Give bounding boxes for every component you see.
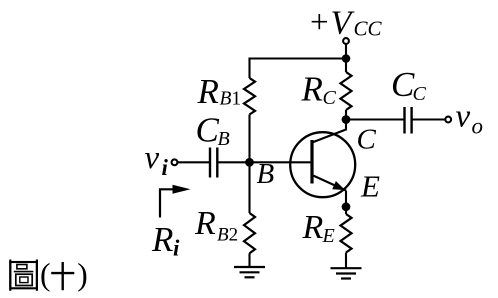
glyph tu inner top box [17,265,27,269]
wire [250,57,347,59]
svg-text:(: ( [40,257,51,292]
svg-text:B1: B1 [220,89,242,110]
wire [345,110,347,131]
svg-text:R: R [194,205,216,242]
wire base [250,161,313,163]
svg-text:R: R [151,220,173,259]
svg-text:C: C [391,65,415,104]
svg-text:B: B [218,128,230,150]
capacitor CC [405,107,412,134]
label figure caption 圖(十) [10,260,37,291]
wire [346,118,405,120]
glyph ten [51,262,74,290]
wire [412,118,445,120]
node C [342,115,351,124]
svg-text:o: o [472,114,484,139]
svg-text:CC: CC [354,17,383,41]
resistor RB2 [244,213,255,253]
svg-text:v: v [456,99,471,135]
wire [248,115,250,163]
wire [345,191,347,215]
glyph tu inner bottom box [20,277,28,283]
svg-text:C: C [323,87,337,109]
resistor RB1 [244,78,255,115]
svg-text:C: C [357,124,377,156]
glyph tu bottom box [16,274,32,285]
svg-text:V: V [331,5,356,42]
wire [248,58,250,79]
svg-text:R: R [197,72,219,111]
svg-text:B2: B2 [217,225,238,246]
wire [345,44,347,58]
svg-text:v: v [145,140,160,176]
wire [248,162,250,213]
node VCC junction [342,54,351,63]
node B [245,158,254,167]
resistor RE [341,214,352,253]
svg-text:i: i [162,155,169,180]
wire [248,253,250,267]
ground [234,267,265,277]
svg-text:E: E [360,169,380,204]
capacitor CB [210,148,217,178]
glyph tu outer box [10,262,37,288]
resistor RC [341,72,352,110]
svg-text:R: R [302,209,324,246]
wire [217,161,249,163]
terminal vo [445,117,451,123]
wire [345,253,347,269]
terminal vi [172,159,178,165]
svg-text:C: C [196,111,220,150]
svg-text:R: R [301,70,323,109]
glyph tu middle line [14,271,34,273]
node E [342,202,351,211]
wire [345,59,347,73]
transistor Q1 [290,130,355,198]
svg-text:C: C [413,83,427,105]
wire [178,161,210,163]
ground [331,268,362,278]
svg-text:): ) [77,257,88,292]
svg-text:B: B [257,158,275,190]
terminal VCC [343,38,349,44]
svg-text:i: i [173,236,180,261]
arrow Ri [160,185,191,218]
svg-text:E: E [322,225,335,247]
svg-text:+: + [310,5,329,41]
